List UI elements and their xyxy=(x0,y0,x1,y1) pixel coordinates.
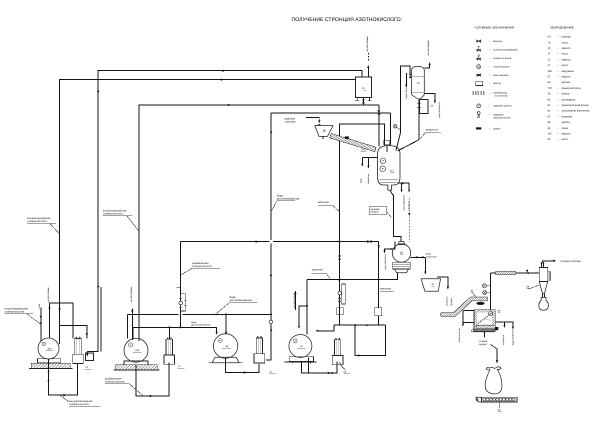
vessel 57 dissolving tank xyxy=(289,335,312,358)
vessel 100 measuring tank xyxy=(124,338,148,362)
pedestal vessel 57 xyxy=(289,357,313,361)
pipe L1 concentrated acid header to vessel 48/1 xyxy=(60,80,356,344)
reactor 6/1 xyxy=(378,146,400,191)
vent manifold pump 7/1 xyxy=(50,303,74,338)
svg-text:маточник: маточник xyxy=(318,201,330,204)
svg-text:вода оборотная: вода оборотная xyxy=(403,195,406,210)
svg-text:насос: насос xyxy=(562,138,569,141)
condensate line condenser to reactor xyxy=(398,99,420,151)
svg-text:ёмкость: ёмкость xyxy=(562,133,572,136)
svg-text:соляная кислота: соляная кислота xyxy=(103,212,123,215)
svg-text:продукт: продукт xyxy=(371,211,380,214)
svg-text:на абсорбцию: на абсорбцию xyxy=(47,287,50,302)
centrifuge 80 xyxy=(392,244,410,262)
pump 17 xyxy=(166,339,172,355)
product line reactor to centrifuge xyxy=(390,190,401,241)
pipe water line y=327.4 to vessels xyxy=(133,327,217,338)
pipe L2 twin drop to trap xyxy=(87,287,98,353)
svg-text:вакуумная: вакуумная xyxy=(562,70,575,73)
svg-text:на абсорбцию: на абсорбцию xyxy=(130,287,133,302)
pipe vessel1 side branch xyxy=(60,326,87,339)
pipe distilled water line y=314.4 xyxy=(127,313,178,315)
vent vessel 57 xyxy=(294,291,296,310)
exhaust duct to cyclone xyxy=(490,272,539,274)
svg-text:задвижка: задвижка xyxy=(493,114,504,117)
receiver 20 xyxy=(420,100,428,114)
acid inlet arrow to vessel 48/1 xyxy=(40,308,42,342)
legend symbol rows xyxy=(477,40,481,43)
svg-text:вода оборотная: вода оборотная xyxy=(438,101,441,118)
svg-text:ёмкость: ёмкость xyxy=(562,58,572,61)
cyclone receiver flask xyxy=(539,297,549,310)
dryer right side stubs xyxy=(495,322,513,328)
svg-text:72/1: 72/1 xyxy=(548,87,553,90)
svg-text:готовый: готовый xyxy=(479,340,488,343)
reactor cooling water stubs left xyxy=(362,157,377,159)
pump 21 discharge to water junction xyxy=(266,359,271,361)
svg-text:вода оборотная: вода оборотная xyxy=(384,253,387,270)
pump 7/1 xyxy=(75,339,81,355)
platform vessel 100 xyxy=(116,365,157,370)
svg-text:клапан отсечной: клапан отсечной xyxy=(493,57,512,60)
svg-text:соляная кислота: соляная кислота xyxy=(5,310,25,313)
svg-text:дистиллированная: дистиллированная xyxy=(230,299,253,302)
reactor bottom right outlet xyxy=(398,183,409,190)
condenser cooling water outlet right xyxy=(424,93,435,101)
svg-text:ёмкость: ёмкость xyxy=(562,76,572,79)
condenser cooling water left stub xyxy=(405,73,407,86)
pedestal vessel 48/1 xyxy=(38,359,61,363)
cyclone 89 xyxy=(539,268,548,282)
vent vessel 100 xyxy=(131,309,133,341)
pipe L3 concentrated acid to vessel 100 and reactor xyxy=(139,105,379,341)
pump 53 drain chute xyxy=(340,362,346,370)
svg-text:соляная кислота: соляная кислота xyxy=(105,380,125,383)
label target product xyxy=(369,207,387,214)
svg-text:от КЩ: от КЩ xyxy=(38,304,41,310)
svg-text:конденсат: конденсат xyxy=(502,335,505,345)
vessel 48/1 measuring tank xyxy=(38,338,59,359)
svg-text:на абсорбцию: на абсорбцию xyxy=(293,293,296,308)
vessel 66 measuring tank xyxy=(213,334,237,358)
svg-text:фильтр: фильтр xyxy=(493,82,502,85)
vapour line reactor to condenser xyxy=(396,66,410,151)
condenser 16 xyxy=(412,66,425,99)
roller conveyor 84 xyxy=(482,397,517,402)
svg-text:6/1: 6/1 xyxy=(390,170,394,173)
pump 21 xyxy=(256,338,262,354)
svg-text:клапан регулирующий: клапан регулирующий xyxy=(493,48,518,51)
svg-text:кран шаровой: кран шаровой xyxy=(493,74,509,77)
svg-text:ПОЛУЧЕНИЕ СТРОНЦИЯ АЗОТНОКИСЛО: ПОЛУЧЕНИЕ СТРОНЦИЯ АЗОТНОКИСЛОГО: xyxy=(292,17,403,23)
svg-text:трубопровод: трубопровод xyxy=(493,92,507,95)
svg-text:влажный: влажный xyxy=(446,296,449,306)
centrifuge water outlet down xyxy=(385,242,396,252)
svg-text:топочные газы: топочные газы xyxy=(458,327,461,342)
pipe L4 distilled water header xyxy=(271,112,390,114)
svg-text:бункер-питатель: бункер-питатель xyxy=(562,87,582,90)
bottom loop vessel 66 to pump xyxy=(226,358,259,372)
bottom loop vessel 57 to pump xyxy=(301,362,337,373)
svg-text:продукт: продукт xyxy=(479,343,488,346)
mother liquor riser to reactor xyxy=(340,124,385,325)
cyclone stack xyxy=(541,262,543,267)
svg-text:насос: насос xyxy=(562,53,569,56)
svg-text:на абсорбцию: на абсорбцию xyxy=(366,36,369,51)
bottom loop vessel 100 to pump xyxy=(136,363,169,397)
svg-text:в коллектор: в коллектор xyxy=(495,95,509,98)
svg-text:продукт: продукт xyxy=(450,298,453,306)
bottom loop vessel 48/1 to pump xyxy=(49,359,78,395)
dryer 98 xyxy=(474,310,495,331)
branch to vessel 57 top xyxy=(299,306,307,328)
vent condenser to absorption xyxy=(424,65,429,69)
svg-text:УСЛОВНЫЕ ОБОЗНАЧЕНИЯ: УСЛОВНЫЕ ОБОЗНАЧЕНИЯ xyxy=(475,26,514,30)
svg-text:дистиллированная: дистиллированная xyxy=(277,198,300,201)
U-seal loop xyxy=(355,325,385,355)
mother liquor line from centrifuge to vessel 57 xyxy=(307,273,397,280)
centrifuge casing xyxy=(393,262,410,269)
svg-text:оборотная: оборотная xyxy=(367,174,370,184)
pipe L3 drop to reactor with valve xyxy=(378,105,380,147)
svg-text:7/1: 7/1 xyxy=(548,41,552,44)
svg-text:Вода: Вода xyxy=(426,253,432,256)
dryer left side stubs xyxy=(463,310,474,312)
svg-text:маточник: маточник xyxy=(380,287,392,290)
pedestal vessel 66 xyxy=(212,357,239,363)
svg-text:72/1: 72/1 xyxy=(361,149,366,152)
belt conveyor 84 xyxy=(440,297,487,317)
pipe dilute acid header y=241.6 xyxy=(181,241,270,243)
product drop to bag xyxy=(484,332,486,338)
svg-text:шибер: шибер xyxy=(493,127,501,130)
product bag xyxy=(485,367,502,394)
svg-text:вода оборотная: вода оборотная xyxy=(405,82,408,99)
svg-text:печка: печка xyxy=(562,127,569,130)
control point on vapour line xyxy=(394,125,397,128)
hopper bypass to belt xyxy=(437,277,448,286)
svg-text:соляная кислота: соляная кислота xyxy=(192,265,212,268)
svg-text:насос: насос xyxy=(562,64,569,67)
svg-text:маточник: маточник xyxy=(312,269,324,272)
svg-text:в бункер системы: в бункер системы xyxy=(561,260,582,263)
reactor agitator motor xyxy=(384,140,390,144)
svg-text:конденсат: конденсат xyxy=(408,200,411,210)
svg-text:конденсат: конденсат xyxy=(426,128,439,131)
cyclone outlet to bunker system xyxy=(542,261,554,263)
svg-text:вода оборотная: вода оборотная xyxy=(511,328,514,345)
svg-text:целевой: целевой xyxy=(371,208,381,211)
svg-text:автоматическая: автоматическая xyxy=(493,117,511,120)
pump 17 discharge xyxy=(168,327,170,339)
svg-text:100: 100 xyxy=(135,349,140,352)
svg-text:бункер: бункер xyxy=(562,93,571,96)
svg-text:конвейер: конвейер xyxy=(562,115,573,118)
svg-text:ёмкость: ёмкость xyxy=(562,47,572,50)
hopper 78 strontium carbonate xyxy=(315,126,333,137)
svg-text:100: 100 xyxy=(548,133,553,136)
svg-text:центрифуга: центрифуга xyxy=(562,98,576,101)
steam trap box xyxy=(86,353,94,361)
vent vessel 48/1 xyxy=(49,303,51,338)
svg-text:48/1: 48/1 xyxy=(47,347,52,350)
belt discharge into dryer duct xyxy=(489,273,491,310)
svg-text:циклон: циклон xyxy=(562,121,571,124)
svg-text:на абсорбцию: на абсорбцию xyxy=(427,40,430,55)
svg-text:промежуточный бункер: промежуточный бункер xyxy=(562,104,590,107)
water line to filters y=325.2 xyxy=(334,324,386,326)
pipe dilute acid riser with metering unit xyxy=(180,242,182,328)
svg-text:задвижка ручная: задвижка ручная xyxy=(493,105,512,108)
svg-text:реактор: реактор xyxy=(562,36,572,39)
svg-text:6/1: 6/1 xyxy=(548,36,552,39)
svg-text:мерник: мерник xyxy=(562,81,571,84)
pipe L2 header to pump area xyxy=(98,71,362,287)
svg-text:Вода: Вода xyxy=(191,321,197,324)
pump 53 xyxy=(334,340,340,356)
wash water arrows into centrifuge xyxy=(411,256,426,258)
screw feeder 72/1 xyxy=(330,134,376,152)
vent tank 15 to absorption xyxy=(367,67,369,77)
dashed collector line to centrifuge xyxy=(408,198,410,242)
svg-text:дистиллированная: дистиллированная xyxy=(191,324,211,327)
tank 15 xyxy=(355,77,371,98)
svg-text:транспортёр ленточный: транспортёр ленточный xyxy=(562,110,590,113)
pipe header right drop to filter xyxy=(378,242,380,308)
tank 15 bottom valve xyxy=(362,98,364,106)
svg-text:оборотная: оборотная xyxy=(426,255,437,258)
svg-text:ОБОРУДОВАНИЕ: ОБОРУДОВАНИЕ xyxy=(550,26,574,30)
svg-text:насос: насос xyxy=(562,41,569,44)
hopper 81 xyxy=(421,279,441,292)
svg-text:соляная кислота: соляная кислота xyxy=(27,220,47,223)
svg-text:соляная кислота: соляная кислота xyxy=(69,403,89,406)
svg-text:48/1: 48/1 xyxy=(548,70,553,73)
svg-text:точка контроля: точка контроля xyxy=(493,66,510,69)
svg-text:стронция: стронция xyxy=(284,120,296,123)
pedestal vessel 100 xyxy=(124,361,148,365)
platform vessel 48/1 xyxy=(31,363,70,368)
pipe feed drop into vessel 66 xyxy=(225,314,227,333)
svg-text:Вентиль: Вентиль xyxy=(493,40,503,43)
solids drop to hopper 81 xyxy=(424,257,426,272)
